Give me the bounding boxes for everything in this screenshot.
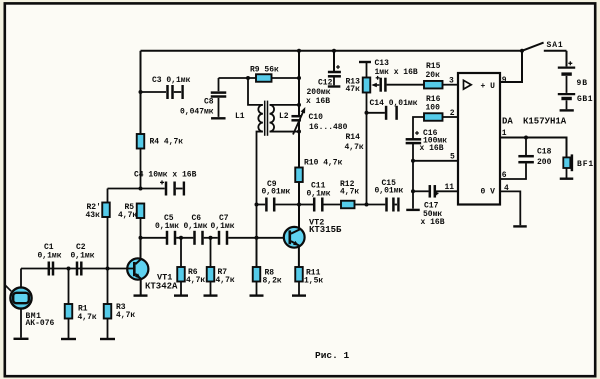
svg-text:0,1мк: 0,1мк: [155, 222, 179, 231]
svg-text:С14 0,01мк: С14 0,01мк: [370, 99, 418, 108]
svg-text:R9 56к: R9 56к: [250, 66, 279, 75]
svg-text:+ U: + U: [481, 82, 496, 91]
svg-text:L2: L2: [279, 112, 289, 121]
svg-text:200мк: 200мк: [307, 88, 331, 97]
svg-text:R4 4,7к: R4 4,7к: [150, 138, 184, 147]
svg-text:5: 5: [450, 153, 455, 162]
svg-text:8,2к: 8,2к: [263, 277, 282, 286]
svg-text:АК-076: АК-076: [26, 319, 55, 328]
svg-text:100: 100: [426, 104, 441, 113]
svg-text:0,1мк: 0,1мк: [211, 222, 235, 231]
svg-text:1мк х 16В: 1мк х 16В: [375, 68, 418, 77]
svg-text:х 16В: х 16В: [421, 218, 445, 227]
svg-text:R15: R15: [426, 62, 441, 71]
svg-text:9В: 9В: [577, 79, 588, 88]
svg-text:SA1: SA1: [547, 41, 564, 50]
svg-text:3: 3: [449, 77, 454, 86]
svg-text:0,01мк: 0,01мк: [262, 188, 291, 197]
svg-text:9: 9: [502, 76, 507, 85]
svg-text:2: 2: [450, 109, 455, 118]
svg-text:4,7к: 4,7к: [345, 143, 364, 152]
svg-text:0,1мк: 0,1мк: [184, 222, 208, 231]
svg-text:С12: С12: [318, 79, 333, 88]
svg-text:4,7к: 4,7к: [186, 276, 205, 285]
svg-text:0,1мк: 0,1мк: [71, 252, 95, 261]
svg-text:х 16В: х 16В: [420, 144, 444, 153]
svg-text:4,7к: 4,7к: [78, 313, 97, 322]
svg-text:4: 4: [504, 184, 509, 193]
svg-text:0,01мк: 0,01мк: [375, 187, 404, 196]
svg-text:Рис. 1: Рис. 1: [315, 350, 350, 361]
svg-text:200: 200: [537, 158, 552, 167]
svg-text:КТ315Б: КТ315Б: [309, 225, 342, 235]
svg-text:6: 6: [502, 171, 507, 180]
svg-text:16...480: 16...480: [309, 123, 348, 132]
svg-text:BF1: BF1: [577, 160, 594, 169]
svg-text:4,7к: 4,7к: [216, 276, 235, 285]
svg-text:1,5к: 1,5к: [304, 277, 323, 286]
svg-text:1: 1: [502, 129, 507, 138]
svg-text:DA: DA: [502, 117, 513, 127]
svg-text:С8: С8: [204, 97, 214, 106]
svg-text:С4 10мк х 16В: С4 10мк х 16В: [134, 171, 197, 180]
svg-text:4,7к: 4,7к: [118, 211, 137, 220]
svg-text:С10: С10: [309, 113, 324, 122]
svg-text:КТ342А: КТ342А: [145, 281, 178, 291]
svg-text:К157УН1А: К157УН1А: [523, 117, 567, 127]
svg-text:L1: L1: [235, 112, 245, 121]
svg-text:R10 4,7к: R10 4,7к: [304, 159, 343, 168]
svg-text:47к: 47к: [346, 85, 361, 94]
svg-text:х 16В: х 16В: [306, 97, 330, 106]
svg-text:GB1: GB1: [577, 95, 593, 104]
svg-text:0,047мк: 0,047мк: [180, 107, 214, 116]
svg-text:43к: 43к: [86, 211, 101, 220]
svg-text:4,7к: 4,7к: [340, 188, 359, 197]
svg-text:20к: 20к: [426, 71, 441, 80]
svg-text:С3 0,1мк: С3 0,1мк: [152, 76, 191, 85]
svg-text:R14: R14: [346, 133, 361, 142]
svg-text:0,1мк: 0,1мк: [307, 189, 331, 198]
svg-text:4,7к: 4,7к: [116, 311, 135, 320]
svg-text:С18: С18: [537, 148, 552, 157]
svg-text:11: 11: [445, 183, 455, 192]
svg-text:0 V: 0 V: [481, 188, 496, 197]
svg-text:0,1мк: 0,1мк: [38, 252, 62, 261]
